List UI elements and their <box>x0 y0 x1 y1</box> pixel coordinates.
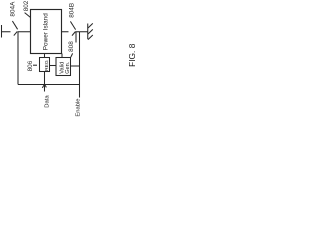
wire left vertical pivot down to bottom rail <box>17 32 19 85</box>
svg-text:Power Island: Power Island <box>43 13 50 50</box>
svg-text:808: 808 <box>68 41 75 52</box>
ground hatch 2 <box>88 29 93 34</box>
leader 808 <box>71 53 73 57</box>
leader 806 <box>33 64 37 66</box>
wire switch 804B to ground <box>76 31 88 33</box>
wire bottom rail <box>18 84 80 86</box>
wire power island to switch 804B <box>62 31 69 33</box>
wire REG to valid gen <box>50 65 57 67</box>
svg-text:806: 806 <box>27 60 34 71</box>
wire valid gen to enable line <box>71 65 80 67</box>
svg-text:802: 802 <box>23 0 30 11</box>
svg-text:REG: REG <box>44 60 50 71</box>
switch 804A lower contact stroke <box>14 31 18 35</box>
ground bar <box>87 24 89 40</box>
wire enable vertical <box>79 32 81 98</box>
svg-text:Enable: Enable <box>75 99 81 117</box>
svg-text:Gen.: Gen. <box>65 61 71 74</box>
register box <box>40 58 50 72</box>
stub power island to REG <box>44 54 46 58</box>
valid gen box <box>56 58 71 76</box>
wire supply to switch 804A <box>2 31 11 33</box>
data arrowhead <box>42 84 44 88</box>
svg-text:Data: Data <box>44 95 50 108</box>
ground hatch 1 <box>88 23 93 28</box>
switch 804A blade <box>12 21 17 29</box>
node supply terminal bar <box>1 25 3 38</box>
switch 804B pivot drop <box>75 32 77 43</box>
svg-text:FIG. 8: FIG. 8 <box>127 43 137 67</box>
stub REG down to bottom rail <box>44 72 46 85</box>
data tail <box>44 85 46 92</box>
ground hatch 3 <box>88 35 93 40</box>
svg-text:804B: 804B <box>68 3 75 18</box>
leader 802 <box>25 13 31 18</box>
switch 804B lower contact stroke <box>72 31 76 35</box>
wire switch 804A pivot to power island <box>18 31 31 33</box>
svg-text:804A: 804A <box>9 1 16 17</box>
switch 804B blade <box>70 21 75 29</box>
stub power island to valid gen <box>61 54 63 58</box>
power island box 802 <box>31 10 62 54</box>
